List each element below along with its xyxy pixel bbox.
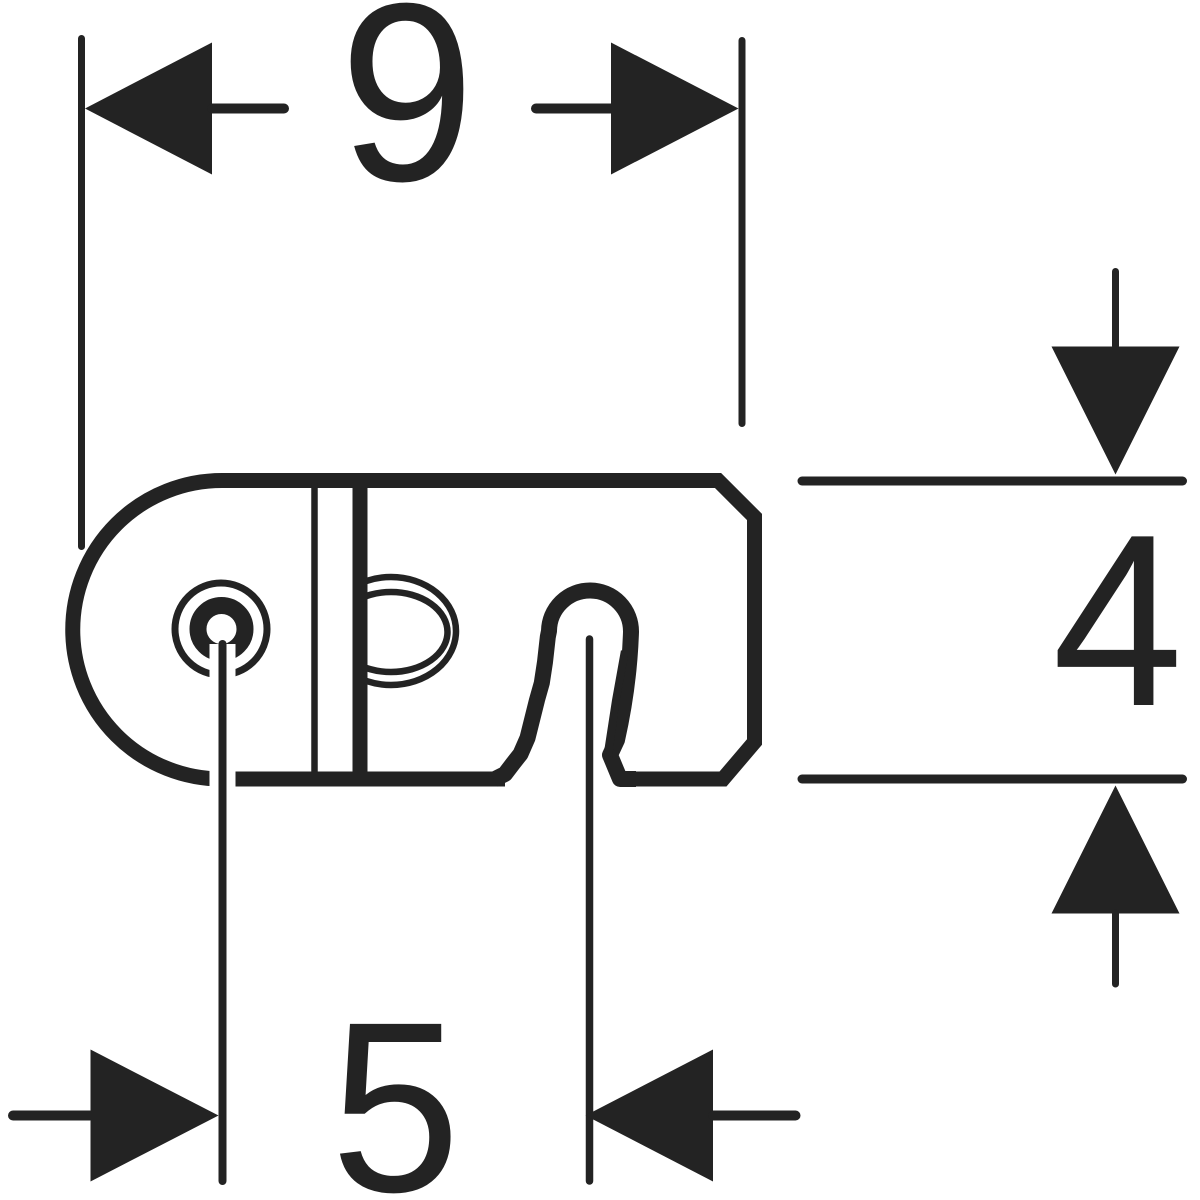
leader line from notch center [586,639,594,1181]
dim 4 top stub [1112,272,1119,347]
oval detail (D-shaped, clipped at thick seam) [326,577,456,685]
dim 4 bottom line [802,775,1183,784]
dim 9 right arrow [611,43,739,175]
svg-text:5: 5 [331,972,461,1200]
dim 9 right tail [536,104,611,114]
internal seam line thick [353,485,368,772]
dim 9 left arrow [85,43,212,175]
svg-text:9: 9 [339,0,475,234]
svg-text:4: 4 [1052,484,1183,757]
dim 4 bottom arrow [1052,786,1180,914]
notch (slot) outline [494,591,636,780]
leader line from hole center [219,644,227,1181]
internal seam line thin [311,483,318,773]
dim 4 top line [802,477,1183,486]
dim 5 right arrow [586,1050,714,1182]
dim 4 label [1052,484,1183,757]
dim 9 label [339,0,475,234]
dim 9 left tail [212,104,284,114]
mounting hole outer circle [175,583,267,675]
dim 5 left arrow [91,1050,219,1182]
dim 4 top arrow [1052,347,1180,475]
mounting hole inner ring [198,606,245,653]
part body outline [73,481,755,780]
leader line halo (hole) [210,644,236,1183]
extension line right (dim 9) [739,41,746,424]
dim 5 right tail [713,1111,796,1121]
extension line left (dim 9) [78,39,85,547]
dim 5 left tail [13,1111,90,1121]
dim 4 bottom stub [1112,913,1119,984]
dim 5 label [331,972,461,1200]
notch right leg taper [604,650,628,758]
